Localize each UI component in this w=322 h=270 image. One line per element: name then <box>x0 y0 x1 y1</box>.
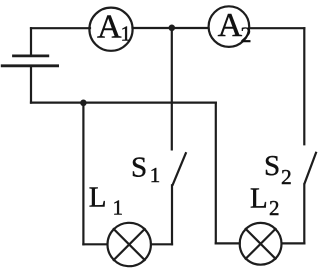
wire right vertical top <box>303 28 305 144</box>
wire between A1 and A2 <box>133 27 209 29</box>
svg-text:1: 1 <box>113 196 124 220</box>
svg-text:1: 1 <box>150 163 161 187</box>
lamp L2 cross <box>246 229 276 259</box>
wire lamp L2 left horizontal <box>216 242 240 244</box>
svg-text:S: S <box>131 151 147 183</box>
wire A2 right horizontal <box>249 27 304 29</box>
wire middle horizontal <box>31 101 216 103</box>
switch S2 blade <box>305 153 316 184</box>
svg-text:2: 2 <box>281 165 292 189</box>
svg-text:2: 2 <box>269 196 280 220</box>
svg-text:S: S <box>264 150 280 182</box>
wire right vertical bottom <box>303 185 305 244</box>
svg-text:1: 1 <box>121 22 132 46</box>
wire L2 branch vertical <box>215 103 217 244</box>
wire left branch vertical <box>82 103 84 245</box>
lamp L1 circle <box>108 223 151 266</box>
wire lamp L1 right horizontal <box>151 243 172 245</box>
wire S1 top vertical <box>171 28 173 150</box>
junction dot top <box>169 25 176 32</box>
svg-text:A: A <box>218 7 243 44</box>
ammeter A1 circle <box>89 8 132 51</box>
junction dot middle <box>80 100 87 107</box>
svg-text:2: 2 <box>241 22 252 47</box>
svg-text:A: A <box>97 8 122 45</box>
ammeter A2 circle <box>209 6 250 47</box>
svg-text:L: L <box>89 182 107 214</box>
lamp L2 circle <box>240 223 282 265</box>
lamp L1 cross <box>114 229 145 260</box>
svg-text:L: L <box>250 182 268 214</box>
wire S1 bottom vertical <box>171 185 173 244</box>
wire top horizontal to A1 <box>31 27 90 29</box>
wire battery top vertical <box>30 28 32 55</box>
switch S1 blade <box>173 153 186 184</box>
wire lamp L2 right horizontal <box>282 242 305 244</box>
wire battery bottom vertical <box>30 66 32 103</box>
battery cell long plate <box>2 64 57 67</box>
battery cell short plate <box>14 55 48 58</box>
wire lamp L1 left horizontal <box>83 243 107 245</box>
